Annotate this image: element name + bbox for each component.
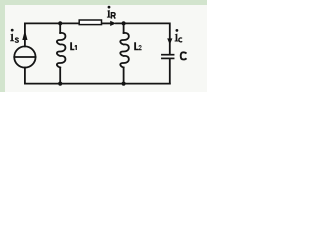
capacitor C bottom plate bbox=[162, 57, 174, 59]
junction dot L1 bottom bbox=[58, 82, 62, 86]
inductor L2 coil bbox=[120, 33, 128, 68]
label L1 subscript 1 bbox=[75, 45, 77, 50]
wire L2 branch top bbox=[123, 23, 125, 33]
label L2 letter L bbox=[134, 42, 138, 50]
label i_C subscript c bbox=[179, 38, 182, 42]
wire below current source bbox=[24, 68, 26, 84]
wire bottom segment bbox=[25, 83, 170, 85]
wire right-lower segment bbox=[169, 59, 171, 84]
label C of capacitor bbox=[181, 52, 187, 59]
inductor L1 coil bbox=[57, 33, 65, 68]
current source bar bbox=[14, 56, 35, 58]
current source I_S circle bbox=[14, 46, 35, 67]
label L2 subscript 2 bbox=[139, 45, 142, 50]
wire top-middle segment bbox=[101, 22, 110, 24]
wire L1 branch bottom bbox=[59, 68, 61, 84]
wire L2 branch bottom bbox=[123, 68, 125, 84]
label i_S subscript s bbox=[15, 38, 18, 42]
capacitor C top plate bbox=[162, 54, 174, 56]
arrow of capacitor current i_C (down) bbox=[167, 38, 172, 44]
junction dot L1 top bbox=[58, 21, 62, 25]
label i_S letter i stem bbox=[10, 34, 14, 42]
wire L1 branch top bbox=[59, 23, 61, 33]
junction dot L2 bottom bbox=[122, 82, 126, 86]
label i_C dot of i bbox=[176, 29, 179, 32]
resistor R body bbox=[79, 20, 101, 25]
label i_C letter i stem bbox=[175, 34, 179, 42]
wire top-left segment bbox=[25, 23, 79, 46]
label L1 letter L bbox=[70, 42, 74, 50]
arrow of source current i_S (up) bbox=[22, 30, 27, 40]
label i_R dot of i bbox=[108, 6, 111, 9]
label i_R subscript R bbox=[111, 13, 115, 19]
junction dot L2 top bbox=[122, 21, 126, 25]
label i_R letter i stem bbox=[107, 10, 111, 18]
wire top-right segment bbox=[116, 23, 170, 54]
label i_S dot of i bbox=[11, 29, 14, 32]
arrow of resistor current i_R (right) bbox=[110, 21, 116, 26]
